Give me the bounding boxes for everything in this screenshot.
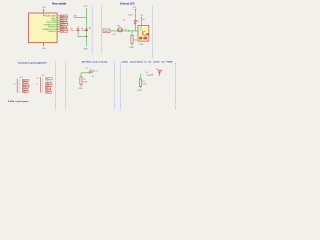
svg-text:GND: GND xyxy=(84,49,89,51)
wire +3V3 vertical xyxy=(86,10,88,46)
IC U1 pin stubs xyxy=(57,16,60,31)
wire IC VCC stub xyxy=(43,9,44,13)
svg-text:All LEDs used on board: All LEDs used on board xyxy=(82,60,108,63)
+5V arrow symbol (collector) xyxy=(141,17,142,18)
partition dashed line C xyxy=(152,6,154,58)
svg-text:VIN: VIN xyxy=(46,78,48,80)
transistor pin 1 (green, inside top) xyxy=(140,27,142,31)
resistor R3 xyxy=(131,35,133,43)
svg-text:red: red xyxy=(142,18,145,21)
svg-text:10k: 10k xyxy=(134,39,137,41)
+3V3 arrow symbol xyxy=(86,9,87,11)
wire resistor to gnd xyxy=(80,85,82,87)
svg-text:RX: RX xyxy=(46,87,48,89)
partition dashed line B xyxy=(100,6,102,54)
net label PWM xyxy=(103,29,110,33)
svg-text:D2: D2 xyxy=(86,68,88,70)
wire base xyxy=(110,30,138,32)
partition dashed line E xyxy=(65,62,67,110)
resistor R4 xyxy=(139,79,141,86)
svg-text:Micro controller: Micro controller xyxy=(52,2,66,5)
svg-text:4: 4 xyxy=(19,87,20,89)
+5V arrow symbol xyxy=(135,9,136,11)
transistor T1 body xyxy=(138,26,149,42)
svg-text:MOSI: MOSI xyxy=(61,16,65,18)
svg-text:100n: 100n xyxy=(81,30,85,32)
svg-text:RST: RST xyxy=(23,89,26,91)
wire resistor to gnd xyxy=(131,43,133,45)
connector JP3 net label boxes xyxy=(46,78,53,94)
net label boxes on IC pins xyxy=(60,15,67,32)
junction red xyxy=(151,74,152,75)
svg-text:1: 1 xyxy=(19,80,20,82)
partition dashed line G xyxy=(120,62,122,110)
transistor internals xyxy=(143,31,146,36)
svg-text:T1: T1 xyxy=(133,23,135,25)
resistor R1 xyxy=(80,77,82,85)
svg-text:TX: TX xyxy=(46,90,48,92)
wire to resistor xyxy=(140,74,142,79)
svg-text:LED_B: LED_B xyxy=(93,71,99,73)
capacitor C2 xyxy=(70,26,79,36)
connector JP1 pin numbers xyxy=(19,80,20,94)
connector JP3 bracket xyxy=(40,77,42,93)
svg-text:2: 2 xyxy=(42,81,43,83)
svg-text:GND: GND xyxy=(137,90,142,92)
svg-text:100n: 100n xyxy=(70,30,74,32)
IC U1 body xyxy=(29,13,58,43)
wire +5V down xyxy=(134,11,136,31)
svg-text:R4: R4 xyxy=(143,81,145,83)
LED D2 symbol xyxy=(89,71,92,74)
svg-text:JP2: JP2 xyxy=(117,26,120,28)
junction xyxy=(86,36,88,38)
partition dashed line A xyxy=(91,6,93,54)
svg-text:PB2/ADC1: PB2/ADC1 xyxy=(48,30,57,33)
wire pulldown xyxy=(131,31,133,35)
svg-text:GND: GND xyxy=(139,44,144,46)
partition dashed line H xyxy=(175,63,177,110)
lamp LA1 symbol xyxy=(117,28,122,32)
svg-text:2: 2 xyxy=(19,82,20,84)
svg-text:GND: GND xyxy=(78,88,83,90)
junction on base wire xyxy=(128,30,130,32)
svg-text:External LED: External LED xyxy=(120,2,135,5)
svg-text:R2: R2 xyxy=(123,20,125,22)
IC GND stub xyxy=(43,43,44,46)
svg-text:6: 6 xyxy=(19,92,20,94)
svg-text:4: 4 xyxy=(42,85,43,87)
svg-text:LEDs (controlled) to be wired: LEDs (controlled) to be wired via PWM xyxy=(122,60,172,63)
svg-text:6V: 6V xyxy=(89,28,91,30)
partition dashed line F xyxy=(114,62,116,110)
svg-text:+3V3: +3V3 xyxy=(83,6,87,8)
svg-text:MOSI: MOSI xyxy=(23,87,27,89)
svg-text:Connection to your programmer: Connection to your programmer xyxy=(18,61,47,64)
wire led-driver xyxy=(81,72,90,74)
svg-text:6: 6 xyxy=(42,90,43,92)
svg-text:JP1: JP1 xyxy=(20,77,23,79)
svg-text:JP2: JP2 xyxy=(41,75,44,77)
svg-text:PWM: PWM xyxy=(104,31,109,33)
svg-text:+3V3: +3V3 xyxy=(42,7,46,9)
partition dashed line D xyxy=(55,62,57,110)
LED D1 symbol xyxy=(134,21,137,23)
IC U1 pin names (inside, right aligned) xyxy=(43,15,58,33)
svg-text:D3: D3 xyxy=(156,69,158,71)
svg-text:1: 1 xyxy=(42,78,43,80)
wire resistor to gnd xyxy=(140,86,142,88)
svg-text:GND: GND xyxy=(129,47,134,49)
svg-text:RST: RST xyxy=(61,27,64,29)
wire collector xyxy=(141,19,143,26)
svg-text:LED1: LED1 xyxy=(129,15,133,17)
svg-text:VCC_IO: VCC_IO xyxy=(46,80,53,82)
svg-text:GND: GND xyxy=(42,48,47,50)
svg-text:3: 3 xyxy=(42,83,43,85)
svg-text:R1: R1 xyxy=(83,79,85,81)
wire cap bottoms xyxy=(78,36,87,38)
svg-text:SCL: SCL xyxy=(46,83,49,85)
IC U1 power pin stub (inside top) xyxy=(43,14,45,17)
svg-text:3: 3 xyxy=(19,85,20,87)
connector JP1 bracket xyxy=(16,79,18,93)
connector JP3 pin numbers xyxy=(42,78,43,94)
wire +3V3 branch xyxy=(74,16,87,18)
svg-text:5: 5 xyxy=(19,89,20,91)
connector JP1 net label boxes xyxy=(22,79,29,92)
svg-text:R4: R4 xyxy=(146,72,148,74)
wire to resistor xyxy=(80,73,82,77)
red tick xyxy=(125,29,126,31)
svg-text:6 MHz crystal parts: 6 MHz crystal parts xyxy=(8,100,29,103)
svg-text:PWM: PWM xyxy=(147,75,152,77)
svg-text:7: 7 xyxy=(42,92,43,94)
transistor pad marks xyxy=(139,37,142,40)
capacitor C3 xyxy=(81,28,88,32)
svg-text:5: 5 xyxy=(42,88,43,90)
transistor pin mark (right) xyxy=(146,33,148,35)
LED D3 symbol xyxy=(158,70,161,76)
